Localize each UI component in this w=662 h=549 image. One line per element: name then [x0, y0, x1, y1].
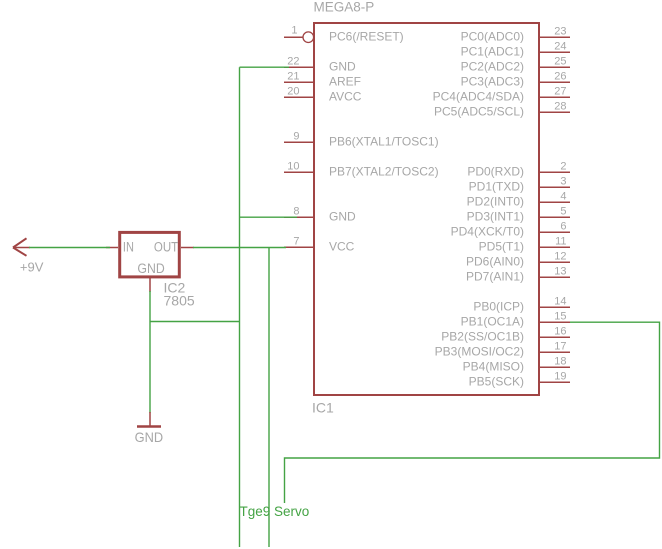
wire junction IC2 GND to GND net	[150, 321, 240, 323]
pin 6 PD4(XCK/T0)	[451, 221, 570, 239]
svg-text:PC2(ADC2): PC2(ADC2)	[461, 60, 524, 74]
svg-text:7805: 7805	[164, 293, 195, 309]
pin 1 PC6(/RESET) with inversion bubble	[284, 25, 404, 44]
wire +9V arrow to IC2 IN	[29, 247, 110, 249]
svg-text:PC5(ADC5/SCL): PC5(ADC5/SCL)	[434, 105, 524, 119]
svg-text:15: 15	[554, 311, 566, 323]
pin 8 GND	[284, 206, 356, 224]
pin 14 PB0(ICP)	[473, 296, 570, 314]
pin 2 PD0(RXD)	[467, 161, 570, 179]
pin 9 PB6(XTAL1/TOSC1)	[284, 131, 439, 149]
svg-text:PC0(ADC0): PC0(ADC0)	[461, 30, 524, 44]
svg-text:PC3(ADC3): PC3(ADC3)	[461, 75, 524, 89]
svg-text:9: 9	[293, 131, 299, 143]
wire pin 22 GND horizontal segment	[240, 66, 290, 68]
svg-text:8: 8	[293, 206, 299, 218]
svg-text:PB3(MOSI/OC2): PB3(MOSI/OC2)	[435, 345, 524, 359]
IC IC1 body outline (MEGA8-P)	[314, 23, 539, 395]
svg-text:OUT: OUT	[154, 240, 178, 255]
svg-text:18: 18	[554, 356, 566, 368]
wire VCC net vertical down to servo connector	[268, 247, 270, 547]
svg-text:PB1(OC1A): PB1(OC1A)	[461, 315, 524, 329]
wire IC2 GND down to ground symbol	[149, 291, 151, 413]
svg-text:24: 24	[554, 41, 566, 53]
IC2 OUT pin stub	[181, 247, 194, 249]
svg-text:26: 26	[554, 71, 566, 83]
svg-text:5: 5	[560, 206, 566, 218]
svg-text:MEGA8-P: MEGA8-P	[314, 0, 375, 15]
pin 22 GND	[284, 56, 356, 74]
pin 24 PC1(ADC1)	[461, 41, 570, 59]
svg-text:16: 16	[554, 326, 566, 338]
svg-text:PB0(ICP): PB0(ICP)	[473, 300, 524, 314]
pin 27 PC4(ADC4/SDA)	[433, 86, 570, 104]
pin 12 PD6(AIN0)	[466, 251, 570, 269]
svg-text:12: 12	[554, 251, 566, 263]
pin 19 PB5(SCK)	[469, 371, 570, 389]
ground symbol	[137, 412, 161, 427]
pin 15 PB1(OC1A)	[461, 311, 570, 329]
wire servo signal from pin 15 PB1(OC1A)	[285, 322, 660, 503]
IC2 GND pin stub	[149, 278, 151, 292]
svg-text:PB6(XTAL1/TOSC1): PB6(XTAL1/TOSC1)	[329, 135, 439, 149]
svg-text:PD0(RXD): PD0(RXD)	[467, 165, 524, 179]
svg-text:PD5(T1): PD5(T1)	[479, 240, 524, 254]
svg-text:AVCC: AVCC	[329, 90, 362, 104]
svg-text:6: 6	[560, 221, 566, 233]
svg-text:PC1(ADC1): PC1(ADC1)	[461, 45, 524, 59]
svg-text:3: 3	[560, 176, 566, 188]
svg-text:GND: GND	[329, 60, 356, 74]
pin 10 PB7(XTAL2/TOSC2)	[284, 161, 439, 179]
svg-text:GND: GND	[137, 261, 165, 276]
regulator IC2 body (7805) with pin names IN OUT GND	[120, 232, 180, 277]
svg-text:PD6(AIN0): PD6(AIN0)	[466, 255, 524, 269]
svg-text:GND: GND	[329, 210, 356, 224]
svg-text:PD3(INT1): PD3(INT1)	[467, 210, 524, 224]
svg-text:1: 1	[291, 25, 297, 37]
IC2 IN pin stub	[106, 247, 118, 249]
pin 26 PC3(ADC3)	[461, 71, 570, 89]
svg-text:+9V: +9V	[20, 260, 44, 275]
svg-text:25: 25	[554, 56, 566, 68]
svg-text:2: 2	[560, 161, 566, 173]
pin 20 AVCC	[284, 86, 362, 104]
pin 13 PD7(AIN1)	[466, 266, 570, 284]
svg-text:PD2(INT0): PD2(INT0)	[467, 195, 524, 209]
svg-text:23: 23	[554, 26, 566, 38]
svg-text:27: 27	[554, 86, 566, 98]
svg-text:IC1: IC1	[312, 400, 334, 416]
svg-text:22: 22	[287, 56, 299, 68]
svg-text:PB7(XTAL2/TOSC2): PB7(XTAL2/TOSC2)	[329, 165, 439, 179]
svg-text:VCC: VCC	[329, 240, 355, 254]
svg-text:21: 21	[287, 71, 299, 83]
pin 11 PD5(T1)	[479, 236, 570, 254]
svg-text:PB2(SS/OC1B): PB2(SS/OC1B)	[441, 330, 524, 344]
svg-text:PB4(MISO): PB4(MISO)	[463, 360, 524, 374]
svg-text:19: 19	[554, 371, 566, 383]
pin 17 PB3(MOSI/OC2)	[435, 341, 570, 359]
svg-text:PD1(TXD): PD1(TXD)	[469, 180, 524, 194]
svg-text:Tge9 Servo: Tge9 Servo	[240, 504, 310, 519]
svg-text:PB5(SCK): PB5(SCK)	[469, 375, 524, 389]
svg-text:11: 11	[555, 236, 566, 248]
svg-text:14: 14	[554, 296, 566, 308]
svg-text:4: 4	[560, 191, 566, 203]
svg-text:17: 17	[554, 341, 566, 353]
svg-text:IN: IN	[123, 240, 134, 255]
pin 23 PC0(ADC0)	[461, 26, 570, 44]
pin 28 PC5(ADC5/SCL)	[434, 101, 570, 119]
svg-text:10: 10	[287, 161, 299, 173]
svg-text:PD7(AIN1): PD7(AIN1)	[466, 270, 524, 284]
pin 18 PB4(MISO)	[463, 356, 570, 374]
svg-text:20: 20	[287, 86, 299, 98]
svg-text:GND: GND	[135, 429, 164, 445]
pin 5 PD3(INT1)	[467, 206, 570, 224]
svg-text:7: 7	[293, 236, 299, 248]
pin 16 PB2(SS/OC1B)	[441, 326, 570, 344]
svg-text:PC4(ADC4/SDA): PC4(ADC4/SDA)	[433, 90, 524, 104]
svg-text:AREF: AREF	[329, 75, 361, 89]
wire IC2 OUT to IC1 pin 7 VCC	[193, 247, 286, 249]
pin 25 PC2(ADC2)	[461, 56, 570, 74]
pin 7 VCC	[284, 236, 355, 254]
svg-text:13: 13	[554, 266, 566, 278]
svg-text:28: 28	[554, 101, 566, 113]
pin 21 AREF	[284, 71, 361, 89]
+9V supply arrow symbol	[13, 238, 30, 256]
svg-text:PC6(/RESET): PC6(/RESET)	[329, 30, 404, 44]
wire GND net vertical from pin 22 down to servo connector	[239, 67, 241, 547]
pin 3 PD1(TXD)	[469, 176, 570, 194]
svg-text:PD4(XCK/T0): PD4(XCK/T0)	[451, 225, 524, 239]
wire pin 8 GND horizontal segment	[240, 216, 298, 218]
pin 4 PD2(INT0)	[467, 191, 570, 209]
